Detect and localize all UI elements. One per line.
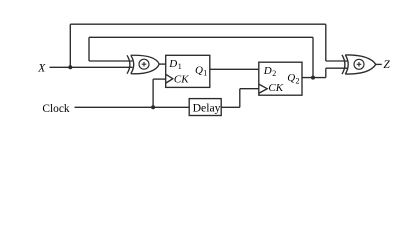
flip-flop U1 clock wedge xyxy=(166,74,173,83)
wire Delay output horizontal xyxy=(221,106,240,108)
xor gate G1 extra input arc xyxy=(127,55,130,73)
wire G1 output to D1 xyxy=(159,63,166,65)
wire outer feedforward top horizontal xyxy=(70,23,325,25)
node junction on Q2 output xyxy=(311,76,315,80)
svg-text:Z: Z xyxy=(383,59,390,71)
svg-text:2: 2 xyxy=(296,76,300,85)
wire Q2 output xyxy=(302,77,326,79)
wire inner feedback into left XOR top input xyxy=(89,60,132,62)
wire Clock to U1 CK horizontal xyxy=(153,78,166,80)
svg-text:Clock: Clock xyxy=(42,103,70,115)
xor gate G2 extra input arc xyxy=(342,55,345,74)
wire outer feedforward right vertical xyxy=(325,24,327,61)
xor gate G2 circled plus xyxy=(354,59,364,69)
svg-text:Q: Q xyxy=(287,72,295,84)
flip-flop U2 box xyxy=(259,62,302,95)
wire outer feedforward into right XOR top input xyxy=(326,60,348,62)
wire Q2 jog into right XOR bottom input xyxy=(326,67,348,69)
svg-text:1: 1 xyxy=(178,62,182,71)
xor gate G2 body xyxy=(345,55,376,74)
wire outer feedforward left vertical xyxy=(69,24,71,67)
svg-text:Q: Q xyxy=(195,64,203,76)
xor gate G1 body xyxy=(131,55,159,74)
node junction on Clock line xyxy=(151,105,155,109)
wire G2 output to Z xyxy=(376,63,382,65)
svg-text:2: 2 xyxy=(272,69,276,78)
wire inner feedback top horizontal xyxy=(89,36,313,38)
svg-text:Delay: Delay xyxy=(193,102,221,115)
wire Q2 jog vertical xyxy=(325,68,327,77)
wire Clock to U1 CK vertical xyxy=(152,79,154,107)
flip-flop U1 box xyxy=(166,55,210,87)
wire inner feedback left vertical xyxy=(88,37,90,61)
svg-text:CK: CK xyxy=(268,82,283,94)
wire X input to left XOR xyxy=(50,66,133,68)
svg-text:CK: CK xyxy=(174,73,189,85)
svg-text:D: D xyxy=(168,58,177,70)
wire Delay output vertical xyxy=(239,89,241,108)
node junction on X line xyxy=(68,65,72,69)
svg-text:D: D xyxy=(263,65,272,77)
wire Delay output to U2 CK xyxy=(240,88,259,90)
delay box DL1 xyxy=(189,99,221,116)
xor gate G1 circled plus xyxy=(139,59,149,69)
wire Q1 to D2 xyxy=(210,68,259,70)
svg-text:1: 1 xyxy=(203,69,207,78)
wire Clock line xyxy=(75,106,190,108)
svg-text:X: X xyxy=(37,63,46,75)
wire inner feedback right vertical xyxy=(312,37,314,77)
flip-flop U2 clock wedge xyxy=(259,84,267,93)
